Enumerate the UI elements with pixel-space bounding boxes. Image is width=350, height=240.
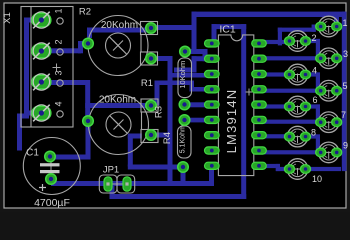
R1 left pad [83,116,94,127]
LED2 [285,31,311,52]
wire feed LED10 part2 [276,167,291,171]
wire R1 bottom pad left branch [128,134,142,139]
svg-text:10Kohm: 10Kohm [178,61,187,89]
wire vertical x170 [168,56,173,186]
wire pin1 up [212,24,217,43]
JP1 pad 2 [123,177,131,191]
wire zigzag LED4 to LED5 [304,72,320,76]
R2 left pad [83,38,94,49]
LED1 [316,16,342,37]
svg-text:2: 2 [54,39,64,44]
wire drop into R2 left pad [87,28,92,39]
wire feed LED7 [262,120,322,124]
wire riser to LED1 left [278,28,282,46]
LED8 [285,126,311,147]
connector X1 outline [21,7,73,128]
R4 bottom pad [178,162,189,173]
LED4 [285,64,311,85]
wire X1 pad3 run [41,80,90,85]
svg-text:IC1: IC1 [219,24,236,36]
X1 pad 1 [32,12,51,29]
wire zigzag LED2 to LED3 [304,39,320,43]
IC1 left pads pins 1-9 [205,40,220,47]
wire R2 top pad left run [87,28,151,33]
wire feed LED4 [262,72,291,76]
wire left rail vertical [24,18,29,119]
IC1 origin cross [246,89,253,96]
LED9 [316,142,342,163]
X1 pad 3 [32,74,51,91]
svg-text:R4: R4 [162,132,173,144]
wire pin1 top horizontal [212,24,247,29]
LED5 [316,80,342,101]
wire bottom row1 [51,181,214,186]
wire R1 top-right pad long run [85,103,151,108]
svg-text:6: 6 [313,95,318,105]
wire X1 pad1 to left rail [24,18,41,23]
wire X1 pad4 stub [24,111,41,116]
svg-text:C1: C1 [26,148,39,159]
potentiometer R1 body [89,95,159,155]
wire channel band to pin4 [190,87,212,92]
wire feed LED10 jog [276,164,280,171]
resistor R3 body [178,58,192,98]
potentiometer R2 body [88,16,158,76]
svg-text:10: 10 [312,174,322,184]
wire 10K top pad run [185,49,208,54]
R3 bottom pad [179,99,190,110]
svg-text:JP1: JP1 [103,165,119,176]
svg-text:2: 2 [312,33,317,43]
IC1 body [218,35,253,176]
wire band jog vertical [192,56,197,72]
svg-text:4: 4 [54,101,64,106]
R1 top right pad [146,100,157,111]
LED7 [316,112,342,133]
C1 top pad [45,151,56,162]
IC1 right pads pins 10-18 [252,40,267,47]
wire LED10 right to rail [304,167,341,171]
R4 top pad [179,115,190,126]
jumper JP1 outline [99,175,134,193]
LED10 [285,159,311,180]
svg-text:R2: R2 [79,7,91,18]
svg-text:5.1Kohm: 5.1Kohm [180,125,187,153]
wire R1 bottom pad exit [151,133,173,138]
svg-text:20Kohm: 20Kohm [101,20,138,31]
svg-text:R3: R3 [154,106,165,118]
R3 top pad [180,46,191,57]
svg-text:1: 1 [54,8,64,13]
wire vertical x133 [128,136,133,167]
wire channel band y70 [174,68,197,73]
svg-text:8: 8 [311,128,316,138]
wire below R1 left pad [86,124,91,160]
wire 10K bottom to pin5 [185,102,212,107]
wire top bus to LED1 [192,12,346,17]
wire R2 top pad right run [151,25,197,30]
wire right rail [342,12,347,172]
wire chute under IC [241,24,246,199]
wire drop to LED1 right pad [334,12,339,26]
capacitor C1 body [23,138,80,195]
wire jog vertical x205 [203,49,208,61]
wire band jog [190,81,195,92]
svg-text:20Kohm: 20Kohm [99,95,136,106]
svg-text:9: 9 [343,141,348,151]
wire feed LED10 part1 [262,164,280,168]
LED labels [311,18,348,184]
JP1 pad 1 [104,177,112,191]
wire horizontal y167 [128,165,183,170]
C1 lead line [50,151,52,184]
svg-text:7: 7 [341,110,346,120]
wire feed LED9 [262,150,322,154]
svg-text:4700µF: 4700µF [34,197,70,209]
svg-text:1: 1 [343,18,348,28]
LED3 [316,48,342,69]
LED6 [285,96,311,117]
wire jog vertical [78,41,83,53]
wire feed LED2 [262,40,291,44]
C1 bottom pad [46,174,57,185]
wire feed LED3 [262,56,322,60]
wire R1 top pad up jog [155,81,160,106]
wire feed LED8 [262,134,291,138]
wire feed LED1 left [278,28,316,32]
X1 origin cross [53,64,61,72]
wire zigzag LED8 to LED9 [304,134,320,138]
wire into pin2 [192,56,212,61]
wire rail jog left [17,114,26,119]
C1 plus mark [39,184,46,191]
svg-text:5: 5 [343,81,348,91]
wire feed LED6 [262,104,291,108]
resistor R4 body [178,126,192,158]
R2 top right pad [146,23,157,34]
svg-text:3: 3 [54,70,64,75]
svg-text:3: 3 [343,49,348,59]
R1 bottom right pad [146,130,157,141]
wire bottom row2 [110,194,247,199]
svg-text:R1: R1 [141,78,153,89]
wire 5.1K top to pin6 [185,118,212,123]
wire R2 left pad exit [78,41,88,46]
svg-text:LM3914N: LM3914N [224,89,239,154]
wire R2 bottom pad exit [151,56,173,61]
wire JP1 left pad drop [110,184,115,199]
wire channel band to pin3 [168,73,212,78]
wire channel band y83 [155,81,195,86]
X1 pin labels and vent circles [54,8,64,106]
wire pin9 corner vertical [209,163,214,186]
wire feed LED5 [262,89,322,93]
X1 pad 4 [32,105,51,122]
wire vertical to R1 left pad [85,80,90,118]
wire vertical x194 [192,12,197,54]
wire to C1 plus pad [50,155,91,160]
wire rail lower vertical [17,116,22,151]
svg-text:4: 4 [312,66,317,76]
C1 plates [40,163,60,166]
wire X1 pad2 to R2 wiper [41,48,81,53]
X1 pad 2 [32,43,51,60]
R2 bottom right pad [146,53,157,64]
wire zigzag LED6 to LED7 [304,104,320,108]
svg-text:X1: X1 [2,12,13,24]
wire 5.1K bottom to row1 [181,167,186,186]
